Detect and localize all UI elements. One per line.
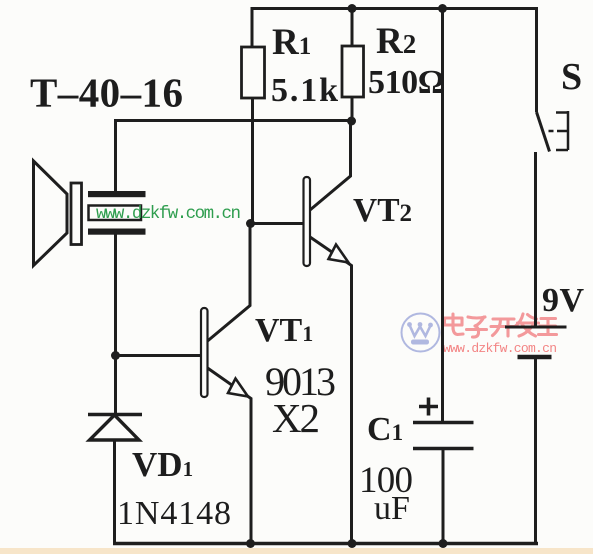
battery positive plate (505, 326, 567, 329)
wire R2 top (351, 7, 354, 46)
node junction bottom VT2 (348, 539, 357, 548)
wire switch to battery (534, 152, 537, 327)
wire battery bottom (534, 357, 537, 543)
speaker top plate (88, 191, 146, 197)
speaker bottom plate (88, 229, 146, 235)
svg-text:www.dzkfw.com.cn: www.dzkfw.com.cn (96, 204, 241, 224)
speaker cone (34, 161, 68, 266)
speaker middle plate (89, 206, 142, 221)
speaker driver (71, 183, 82, 245)
wire R1 bottom to VT2 base node (251, 98, 254, 224)
wire C1 top (441, 9, 444, 423)
battery negative plate (518, 355, 552, 360)
wire switch top (535, 7, 538, 112)
switch S actuator bracket (549, 111, 569, 150)
switch S blade (537, 112, 550, 152)
node junction bottom VT1 (246, 539, 255, 548)
capacitor C1 (413, 423, 474, 449)
wire VT2 base (250, 222, 304, 225)
wire diode to bottom (113, 440, 116, 543)
svg-text:510Ω: 510Ω (368, 64, 445, 101)
wire C1 bottom (442, 449, 445, 544)
svg-text:S: S (561, 56, 582, 98)
node junction VT2 base (246, 219, 255, 228)
wire speaker bottom to diode (114, 235, 117, 415)
capacitor C1 plus sign (419, 398, 438, 416)
junction top R2 (348, 4, 357, 13)
transistor VT1 (201, 224, 251, 544)
transistor VT2 (304, 119, 352, 543)
resistor R1 (242, 47, 265, 98)
top rail wire (252, 7, 537, 10)
svg-text:R2: R2 (376, 21, 416, 62)
wire speaker top (114, 119, 117, 191)
node junction mid (347, 117, 356, 126)
wire mid horizontal (115, 119, 352, 122)
bottom rail wire (113, 542, 538, 546)
svg-text:VT1: VT1 (255, 312, 313, 349)
watermark logo W circle (402, 314, 440, 352)
svg-text:T–40–16: T–40–16 (30, 70, 183, 116)
resistor R2 (342, 46, 364, 97)
junction top C1 (438, 4, 447, 13)
node junction bottom C1 (439, 539, 448, 548)
svg-text:5.1k: 5.1k (271, 72, 338, 109)
wire VT1 base (114, 354, 202, 357)
svg-text:9V: 9V (542, 282, 584, 319)
paper edge strip (0, 548, 593, 554)
svg-text:uF: uF (374, 490, 410, 527)
diode VD1 (88, 415, 142, 441)
wire R2 bottom (351, 97, 354, 122)
svg-text:www.dzkfw.com.cn: www.dzkfw.com.cn (443, 341, 557, 356)
node junction VT1 base (111, 351, 120, 360)
svg-text:X2: X2 (272, 395, 320, 441)
svg-text:1N4148: 1N4148 (117, 495, 231, 532)
svg-text:VD1: VD1 (132, 445, 193, 484)
watermark red chinese text 电子开发网 (445, 314, 557, 337)
wire R1 top (251, 7, 254, 47)
svg-text:VT2: VT2 (353, 192, 412, 229)
svg-text:R1: R1 (272, 22, 311, 63)
svg-text:C1: C1 (367, 411, 403, 448)
